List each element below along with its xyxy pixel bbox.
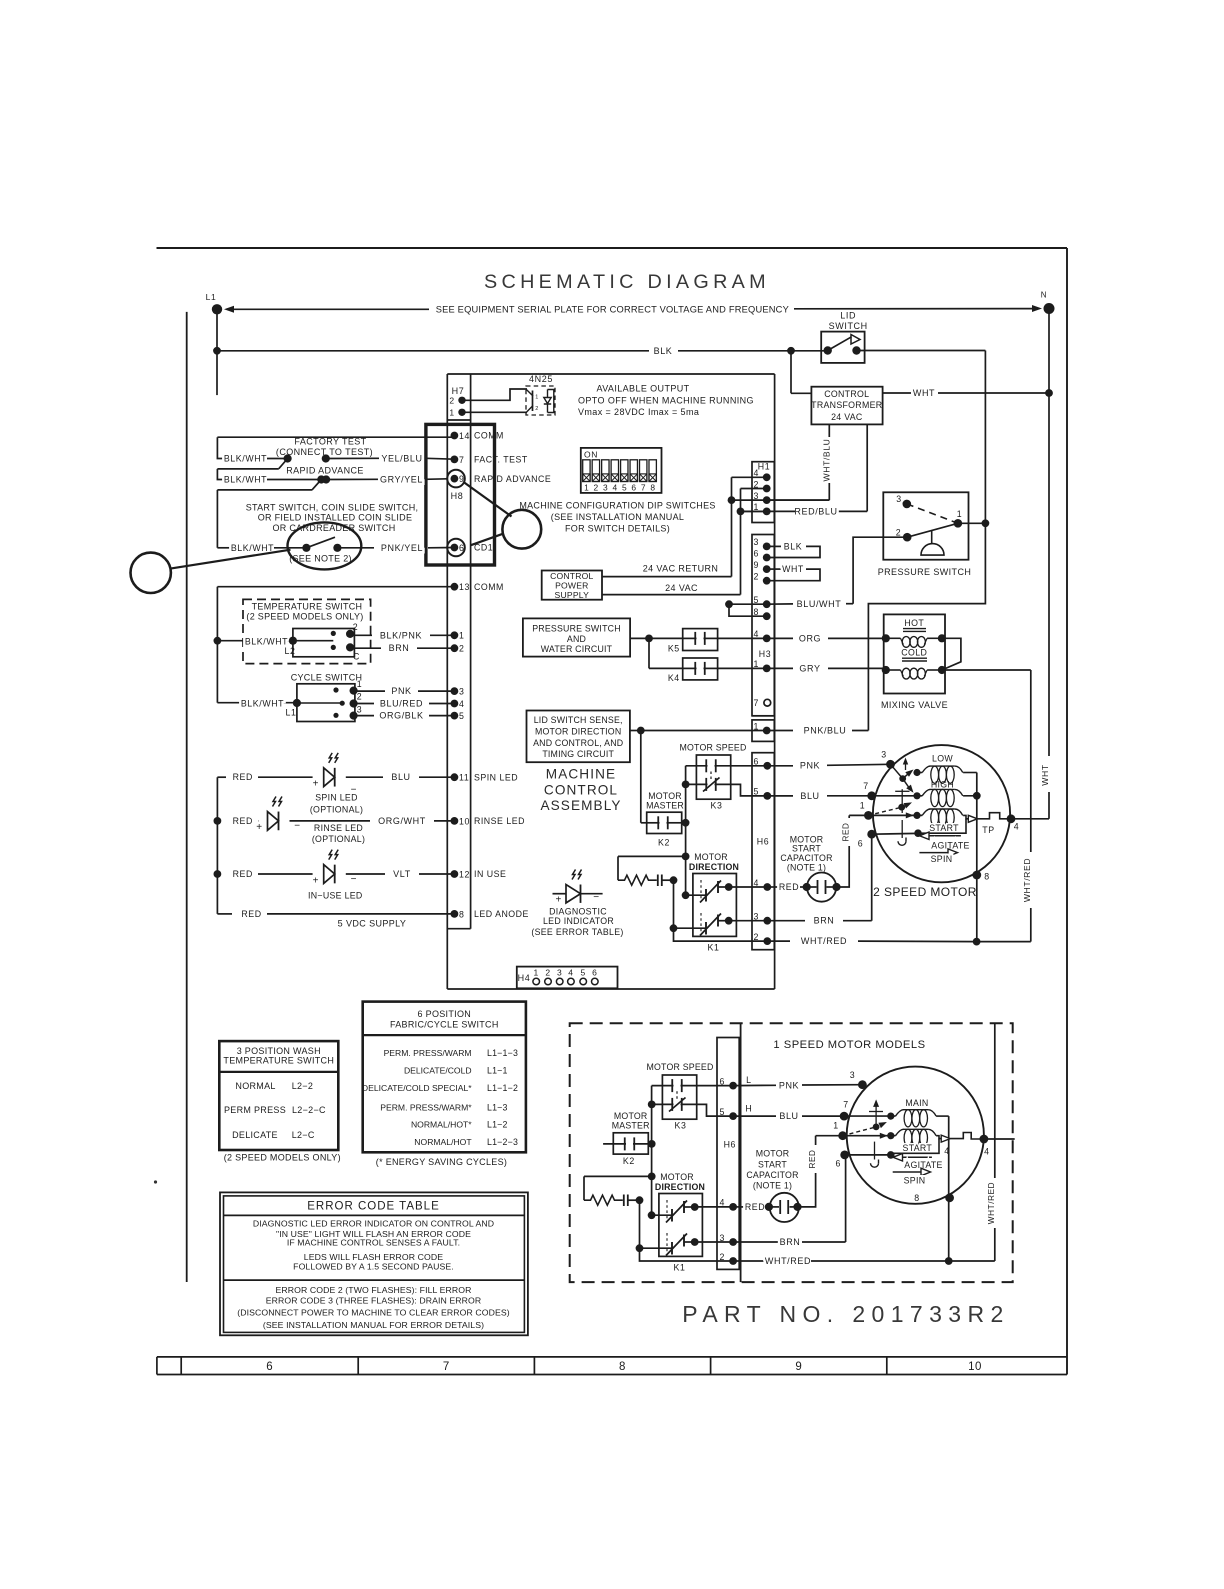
- svg-text:BLK/WHT: BLK/WHT: [231, 543, 274, 553]
- svg-text:4: 4: [568, 967, 573, 977]
- svg-text:ERROR CODE 2 (TWO FLASHES): ERROR CODE 2 (TWO FLASHES): FILL ERROR: [275, 1285, 471, 1295]
- svg-text:2: 2: [357, 692, 363, 702]
- svg-text:1: 1: [535, 395, 538, 401]
- svg-text:1: 1: [449, 408, 454, 418]
- svg-text:K5: K5: [668, 644, 680, 654]
- svg-text:(* ENERGY SAVING CYCLES): (* ENERGY SAVING CYCLES): [376, 1157, 507, 1167]
- svg-text:3: 3: [754, 537, 760, 547]
- svg-text:8: 8: [914, 1193, 920, 1203]
- svg-text:5: 5: [459, 711, 465, 721]
- svg-text:L: L: [746, 1075, 752, 1085]
- svg-text:TEMPERATURE SWITCH: TEMPERATURE SWITCH: [223, 1056, 334, 1066]
- svg-text:8: 8: [619, 1361, 626, 1373]
- svg-text:TEMPERATURE SWITCH: TEMPERATURE SWITCH: [252, 601, 363, 611]
- svg-text:11: 11: [459, 773, 469, 783]
- svg-text:BLK: BLK: [654, 346, 673, 356]
- svg-text:RED: RED: [779, 882, 799, 892]
- svg-text:RED/BLU: RED/BLU: [794, 506, 837, 516]
- svg-text:BLK/WHT: BLK/WHT: [245, 637, 288, 647]
- svg-text:PNK/BLU: PNK/BLU: [804, 726, 847, 736]
- svg-text:WHT/BLU: WHT/BLU: [821, 439, 831, 482]
- svg-text:RINSE LED: RINSE LED: [474, 816, 525, 826]
- svg-text:SWITCH: SWITCH: [829, 321, 868, 331]
- svg-text:(OPTIONAL): (OPTIONAL): [312, 834, 365, 844]
- svg-text:MACHINE CONFIGURATION DIP S: MACHINE CONFIGURATION DIP SWITCHES: [519, 500, 715, 510]
- svg-text:1: 1: [534, 967, 539, 977]
- svg-text:2: 2: [594, 482, 599, 492]
- svg-text:PNK: PNK: [779, 1080, 799, 1090]
- svg-text:PNK: PNK: [800, 761, 820, 771]
- svg-text:2: 2: [353, 622, 359, 632]
- svg-text:Vmax = 28VDC Imax = 5: Vmax = 28VDC Imax = 5ma: [578, 407, 699, 417]
- svg-text:24 VAC RETURN: 24 VAC RETURN: [643, 564, 719, 574]
- svg-text:LED ANODE: LED ANODE: [474, 909, 529, 919]
- svg-text:DELICATE: DELICATE: [232, 1130, 278, 1140]
- svg-text:RINSE LED: RINSE LED: [314, 823, 363, 833]
- svg-text:RAPID ADVANCE: RAPID ADVANCE: [286, 466, 364, 476]
- svg-text:PERM. PRESS/WARM*: PERM. PRESS/WARM*: [380, 1102, 472, 1112]
- svg-text:OR CARDREADER SWITCH: OR CARDREADER SWITCH: [272, 523, 395, 533]
- svg-text:24 VAC: 24 VAC: [831, 412, 863, 422]
- svg-text:5: 5: [622, 482, 627, 492]
- svg-text:(NOTE 1): (NOTE 1): [787, 863, 826, 873]
- svg-text:PRESSURE SWITCH: PRESSURE SWITCH: [532, 624, 621, 634]
- svg-text:3: 3: [754, 491, 760, 501]
- svg-text:RED: RED: [241, 909, 261, 919]
- svg-text:H8: H8: [451, 491, 464, 501]
- svg-text:OR FIELD INSTALLED COIN SL: OR FIELD INSTALLED COIN SLIDE: [258, 513, 413, 523]
- svg-text:2: 2: [459, 644, 465, 654]
- svg-text:START: START: [929, 823, 959, 833]
- svg-text:10: 10: [459, 816, 470, 826]
- svg-text:FOR SWITCH DETAILS): FOR SWITCH DETAILS): [565, 524, 670, 534]
- svg-text:PNK/YEL: PNK/YEL: [381, 543, 423, 553]
- svg-text:1 SPEED MOTOR MODELS: 1 SPEED MOTOR MODELS: [773, 1039, 925, 1051]
- svg-text:3: 3: [881, 750, 887, 760]
- svg-text:6: 6: [858, 839, 864, 849]
- svg-text:−: −: [294, 821, 300, 832]
- svg-text:BLK/PNK: BLK/PNK: [380, 630, 422, 640]
- svg-text:K1: K1: [674, 1263, 686, 1273]
- svg-text:HIGH: HIGH: [931, 779, 954, 789]
- svg-text:7: 7: [443, 1361, 450, 1373]
- svg-text:K3: K3: [711, 801, 723, 811]
- svg-text:COLD: COLD: [901, 647, 927, 657]
- svg-text:NORMAL: NORMAL: [235, 1081, 275, 1091]
- svg-text:BLU/WHT: BLU/WHT: [797, 599, 842, 609]
- svg-text:H6: H6: [757, 837, 769, 847]
- svg-text:5: 5: [581, 967, 586, 977]
- svg-text:2: 2: [545, 967, 550, 977]
- svg-text:MOTOR SPEED: MOTOR SPEED: [679, 743, 746, 753]
- svg-text:6: 6: [631, 482, 636, 492]
- svg-text:GRY: GRY: [799, 663, 820, 673]
- svg-text:H6: H6: [724, 1139, 736, 1149]
- svg-text:ORG/BLK: ORG/BLK: [379, 711, 423, 721]
- svg-text:−: −: [593, 892, 599, 903]
- svg-text:1: 1: [833, 1121, 839, 1131]
- svg-text:BRN: BRN: [780, 1237, 801, 1247]
- svg-text:3: 3: [850, 1070, 856, 1080]
- svg-text:L2−2−C: L2−2−C: [292, 1105, 326, 1115]
- svg-text:WHT/RED: WHT/RED: [1022, 858, 1032, 902]
- svg-text:CYCLE SWITCH: CYCLE SWITCH: [291, 672, 363, 682]
- svg-text:MOTOR: MOTOR: [756, 1149, 790, 1159]
- svg-text:GRY/YEL: GRY/YEL: [380, 474, 423, 484]
- svg-text:YEL/BLU: YEL/BLU: [381, 453, 422, 463]
- svg-text:L1: L1: [206, 292, 217, 302]
- svg-text:NORMAL/HOT*: NORMAL/HOT*: [411, 1120, 472, 1130]
- svg-text:6: 6: [754, 548, 760, 558]
- svg-text:DIRECTION: DIRECTION: [655, 1182, 705, 1192]
- svg-text:L1−2−3: L1−2−3: [487, 1137, 518, 1147]
- svg-text:3: 3: [357, 705, 363, 715]
- svg-text:BLU: BLU: [800, 791, 819, 801]
- svg-text:4: 4: [1014, 822, 1020, 832]
- svg-text:START SWITCH, COIN SLIDE S: START SWITCH, COIN SLIDE SWITCH,: [246, 502, 419, 512]
- svg-text:SUPPLY: SUPPLY: [555, 590, 590, 600]
- svg-text:8: 8: [984, 872, 990, 882]
- svg-text:BLK/WHT: BLK/WHT: [224, 475, 267, 485]
- svg-text:4: 4: [612, 482, 617, 492]
- svg-text:8: 8: [650, 482, 655, 492]
- svg-text:CONTROL: CONTROL: [544, 782, 618, 797]
- svg-text:BLU: BLU: [779, 1111, 798, 1121]
- svg-text:VLT: VLT: [393, 869, 411, 879]
- svg-text:ASSEMBLY: ASSEMBLY: [540, 798, 621, 813]
- svg-text:2: 2: [535, 406, 538, 412]
- svg-text:L1−1−2: L1−1−2: [487, 1083, 518, 1093]
- svg-text:AND CONTROL, AND: AND CONTROL, AND: [533, 738, 623, 748]
- svg-text:RED: RED: [808, 1149, 817, 1168]
- svg-text:FACT. TEST: FACT. TEST: [474, 455, 528, 465]
- svg-text:K3: K3: [675, 1121, 687, 1131]
- svg-text:MOTOR DIRECTION: MOTOR DIRECTION: [535, 726, 621, 736]
- svg-text:10: 10: [968, 1361, 982, 1373]
- svg-text:CONTROL: CONTROL: [824, 389, 869, 399]
- svg-text:BLU/RED: BLU/RED: [380, 699, 423, 709]
- svg-text:L1−1: L1−1: [487, 1065, 508, 1075]
- svg-text:13: 13: [459, 582, 470, 592]
- svg-text:5 VDC SUPPLY: 5 VDC SUPPLY: [338, 918, 407, 928]
- svg-text:L1−1−3: L1−1−3: [487, 1048, 518, 1058]
- svg-text:9: 9: [754, 560, 760, 570]
- svg-text:24 VAC: 24 VAC: [665, 583, 698, 593]
- svg-text:BRN: BRN: [814, 916, 835, 926]
- svg-text:3: 3: [459, 687, 465, 697]
- svg-text:2: 2: [754, 479, 760, 489]
- svg-text:6: 6: [835, 1159, 841, 1169]
- svg-text:RED: RED: [842, 822, 851, 841]
- svg-text:WATER CIRCUIT: WATER CIRCUIT: [541, 644, 613, 654]
- svg-text:(2 SPEED MODELS ONLY): (2 SPEED MODELS ONLY): [224, 1153, 341, 1163]
- svg-text:K1: K1: [708, 943, 720, 953]
- svg-text:4: 4: [459, 699, 465, 709]
- svg-text:DELICATE/COLD: DELICATE/COLD: [404, 1065, 472, 1075]
- svg-text:COMM: COMM: [474, 431, 504, 441]
- svg-text:ORG/WHT: ORG/WHT: [378, 816, 426, 826]
- svg-text:SCHEMATIC DIAGRAM: SCHEMATIC DIAGRAM: [484, 271, 770, 293]
- svg-text:PNK: PNK: [391, 686, 411, 696]
- svg-text:+: +: [555, 894, 561, 905]
- svg-text:DELICATE/COLD SPECIAL*: DELICATE/COLD SPECIAL*: [362, 1083, 472, 1093]
- svg-text:K4: K4: [668, 673, 680, 683]
- svg-text:FABRIC/CYCLE SWITCH: FABRIC/CYCLE SWITCH: [390, 1020, 499, 1030]
- svg-text:1: 1: [957, 509, 963, 519]
- svg-text:PERM. PRESS/WARM: PERM. PRESS/WARM: [384, 1048, 472, 1058]
- svg-text:BLK/WHT: BLK/WHT: [224, 454, 267, 464]
- svg-text:DIAGNOSTIC LED ERROR INDICA: DIAGNOSTIC LED ERROR INDICATOR ON CONTRO…: [253, 1219, 494, 1229]
- svg-text:PART NO. 201733R2: PART NO. 201733R2: [682, 1301, 1009, 1327]
- svg-text:L2−2: L2−2: [292, 1081, 313, 1091]
- svg-text:K2: K2: [623, 1156, 635, 1166]
- svg-text:WHT/RED: WHT/RED: [765, 1256, 811, 1266]
- svg-text:LID: LID: [840, 311, 856, 321]
- svg-text:K2: K2: [658, 837, 670, 847]
- svg-text:IF MACHINE CONTROL SENSES: IF MACHINE CONTROL SENSES A FAULT.: [287, 1238, 460, 1248]
- svg-text:3 POSITION WASH: 3 POSITION WASH: [237, 1046, 321, 1056]
- svg-text:SPIN: SPIN: [904, 1176, 926, 1186]
- svg-text:H4: H4: [518, 973, 531, 983]
- svg-text:−: −: [351, 874, 357, 885]
- svg-text:L1: L1: [286, 708, 297, 718]
- svg-text:1: 1: [357, 679, 363, 689]
- svg-text:12: 12: [459, 869, 470, 879]
- svg-text:IN USE: IN USE: [474, 869, 506, 879]
- svg-text:6: 6: [592, 967, 597, 977]
- svg-text:RED: RED: [745, 1202, 765, 1212]
- svg-text:H7: H7: [452, 386, 465, 396]
- svg-text:2: 2: [754, 572, 760, 582]
- svg-text:SPIN LED: SPIN LED: [315, 792, 358, 802]
- svg-text:7: 7: [863, 781, 869, 791]
- svg-text:H: H: [745, 1103, 752, 1113]
- svg-text:2: 2: [896, 528, 902, 538]
- svg-text:IN−USE LED: IN−USE LED: [308, 890, 363, 900]
- svg-text:N: N: [1041, 291, 1047, 300]
- svg-text:RAPID ADVANCE: RAPID ADVANCE: [474, 474, 551, 484]
- svg-text:ORG: ORG: [799, 633, 821, 643]
- svg-text:PRESSURE SWITCH: PRESSURE SWITCH: [878, 567, 972, 577]
- svg-text:MASTER: MASTER: [646, 800, 684, 810]
- svg-text:(NOTE 1): (NOTE 1): [753, 1181, 792, 1191]
- svg-text:WHT: WHT: [913, 388, 935, 398]
- svg-text:TP: TP: [982, 825, 994, 835]
- svg-text:4N25: 4N25: [529, 374, 553, 384]
- svg-text:CAPACITOR: CAPACITOR: [746, 1170, 798, 1180]
- svg-text:H1: H1: [758, 462, 770, 472]
- svg-text:6: 6: [266, 1361, 273, 1373]
- svg-text:START: START: [903, 1143, 933, 1153]
- svg-text:RED: RED: [233, 816, 253, 826]
- svg-text:9: 9: [795, 1361, 802, 1373]
- svg-text:DIRECTION: DIRECTION: [689, 862, 739, 872]
- svg-text:MOTOR: MOTOR: [660, 1172, 694, 1182]
- svg-text:ERROR CODE 3 (THREE FLASHE: ERROR CODE 3 (THREE FLASHES): DRAIN ERRO…: [266, 1296, 482, 1306]
- svg-text:WHT/RED: WHT/RED: [801, 936, 847, 946]
- svg-text:L1−2: L1−2: [487, 1120, 508, 1130]
- svg-text:WHT/RED: WHT/RED: [987, 1182, 996, 1224]
- svg-text:START: START: [792, 844, 821, 854]
- svg-text:+: +: [313, 779, 319, 790]
- svg-text:7: 7: [641, 482, 646, 492]
- svg-text:HOT: HOT: [904, 618, 924, 628]
- svg-text:1: 1: [584, 482, 589, 492]
- svg-text:TIMING CIRCUIT: TIMING CIRCUIT: [542, 749, 614, 759]
- svg-text:AND: AND: [567, 634, 586, 644]
- svg-text:SPIN LED: SPIN LED: [474, 772, 518, 782]
- svg-text:+: +: [313, 875, 319, 886]
- svg-text:LED INDICATOR: LED INDICATOR: [543, 916, 614, 926]
- svg-text:MOTOR: MOTOR: [694, 852, 728, 862]
- svg-text:MASTER: MASTER: [612, 1121, 650, 1131]
- svg-text:ON: ON: [584, 450, 598, 460]
- svg-text:3: 3: [896, 494, 902, 504]
- svg-text:LID SWITCH SENSE,: LID SWITCH SENSE,: [534, 715, 623, 725]
- svg-text:MIXING VALVE: MIXING VALVE: [881, 700, 948, 710]
- svg-text:4: 4: [984, 1147, 990, 1157]
- svg-text:H3: H3: [759, 649, 771, 659]
- svg-text:MACHINE: MACHINE: [546, 767, 616, 782]
- svg-text:BLK: BLK: [784, 541, 802, 551]
- svg-text:FOLLOWED BY A 1.5 SECOND: FOLLOWED BY A 1.5 SECOND PAUSE.: [293, 1261, 454, 1271]
- svg-text:(OPTIONAL): (OPTIONAL): [310, 805, 363, 815]
- svg-text:SEE EQUIPMENT SERIAL PLATE: SEE EQUIPMENT SERIAL PLATE FOR CORRECT V…: [436, 304, 789, 314]
- svg-text:(SEE INSTALLATION MANUAL: (SEE INSTALLATION MANUAL: [551, 512, 684, 522]
- svg-text:L2: L2: [285, 646, 296, 656]
- svg-text:8: 8: [459, 909, 465, 919]
- svg-text:7: 7: [459, 455, 465, 465]
- svg-text:7: 7: [843, 1100, 849, 1110]
- svg-text:AGITATE: AGITATE: [931, 841, 969, 851]
- svg-text:3: 3: [603, 482, 608, 492]
- svg-text:6 POSITION: 6 POSITION: [418, 1009, 472, 1019]
- svg-text:BRN: BRN: [389, 643, 410, 653]
- svg-text:MOTOR SPEED: MOTOR SPEED: [646, 1062, 713, 1072]
- svg-text:BLK/WHT: BLK/WHT: [241, 699, 284, 709]
- svg-text:AVAILABLE OUTPUT: AVAILABLE OUTPUT: [596, 384, 689, 394]
- svg-text:4: 4: [754, 468, 760, 478]
- svg-text:PERM PRESS: PERM PRESS: [224, 1105, 286, 1115]
- svg-text:L2−C: L2−C: [292, 1130, 315, 1140]
- svg-text:1: 1: [459, 631, 465, 641]
- svg-text:ERROR CODE TABLE: ERROR CODE TABLE: [307, 1200, 440, 1212]
- svg-text:MAIN: MAIN: [905, 1098, 928, 1108]
- svg-text:TRANSFORMER: TRANSFORMER: [811, 400, 882, 410]
- svg-text:2: 2: [449, 396, 454, 406]
- svg-text:RED: RED: [233, 869, 253, 879]
- svg-text:RED: RED: [233, 772, 253, 782]
- svg-text:(DISCONNECT POWER TO MACHIN: (DISCONNECT POWER TO MACHINE TO CLEAR ER…: [237, 1308, 510, 1318]
- svg-text:BLU: BLU: [391, 772, 410, 782]
- svg-text:14: 14: [459, 431, 470, 441]
- svg-text:WHT: WHT: [782, 564, 804, 574]
- svg-text:1: 1: [860, 801, 866, 811]
- svg-text:START: START: [758, 1160, 787, 1170]
- svg-text:C: C: [353, 652, 360, 662]
- svg-text:OPTO OFF WHEN MACHINE RUNN: OPTO OFF WHEN MACHINE RUNNING: [578, 395, 754, 405]
- svg-text:+: +: [256, 822, 262, 833]
- svg-text:(SEE ERROR TABLE): (SEE ERROR TABLE): [531, 927, 623, 937]
- svg-text:L1−3: L1−3: [487, 1102, 508, 1112]
- svg-text:(2 SPEED MODELS ONLY): (2 SPEED MODELS ONLY): [246, 612, 363, 622]
- svg-text:NORMAL/HOT: NORMAL/HOT: [414, 1137, 472, 1147]
- svg-text:3: 3: [557, 967, 562, 977]
- svg-text:(SEE INSTALLATION MANUAL FO: (SEE INSTALLATION MANUAL FOR ERROR DETAI…: [263, 1320, 484, 1330]
- svg-text:COMM: COMM: [474, 582, 504, 592]
- svg-text:SPIN: SPIN: [931, 854, 953, 864]
- svg-text:LOW: LOW: [932, 754, 953, 764]
- svg-text:7: 7: [754, 698, 760, 708]
- svg-text:WHT: WHT: [1040, 764, 1050, 786]
- svg-text:2 SPEED MOTOR: 2 SPEED MOTOR: [873, 885, 977, 899]
